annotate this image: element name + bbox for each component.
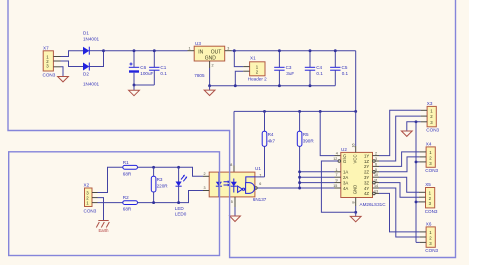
LED LED0 — [175, 167, 187, 216]
svg-text:7805: 7805 — [194, 73, 205, 78]
wire X7 pin3 to ground — [61, 67, 64, 77]
U1 internal photodiode — [231, 179, 237, 193]
svg-text:390R: 390R — [303, 138, 315, 143]
svg-text:Header 2: Header 2 — [248, 77, 267, 82]
wire 1A row — [300, 171, 335, 173]
ground symbol below U2 — [350, 216, 361, 221]
junction 1A — [298, 170, 301, 173]
svg-text:CON3: CON3 — [425, 209, 438, 214]
U1 pin5 stub — [234, 197, 236, 207]
svg-text:6: 6 — [259, 182, 261, 186]
wire gnd to Gbar branch — [321, 161, 355, 212]
wire X4 pin3 to gnd bus — [416, 161, 420, 163]
junction X4 gnd — [415, 160, 418, 163]
wire G enable riser to U2 pin4 — [320, 111, 334, 155]
7805 pin3 stub — [225, 50, 232, 52]
svg-text:3A: 3A — [343, 180, 348, 185]
wire gnd vertical bus — [415, 122, 417, 243]
svg-text:2Y: 2Y — [364, 164, 369, 169]
junction at rail C1 — [153, 49, 156, 52]
IC U2 AM26LS31C body — [341, 147, 386, 207]
junction X5 gnd — [415, 200, 418, 203]
U1 pin2 stub — [203, 175, 209, 177]
wire 4Z to X6 pin1 — [379, 193, 420, 232]
wire R1 to U1 pin2 — [138, 167, 204, 176]
svg-text:1N4001: 1N4001 — [83, 82, 100, 87]
junction X1 gnd — [234, 84, 237, 87]
U1 internal LED — [216, 182, 222, 187]
junction C3 bottom — [278, 84, 281, 87]
wire 3Z to X5 pin2 — [379, 183, 419, 198]
svg-text:8: 8 — [230, 163, 232, 167]
svg-text:220R: 220R — [157, 183, 169, 188]
resistor R1 — [123, 160, 138, 177]
svg-text:U2: U2 — [341, 147, 347, 152]
svg-text:C1: C1 — [160, 65, 166, 70]
node junction D1/D2 — [102, 49, 105, 52]
wire X6 pin3 from gnd bus — [416, 241, 420, 243]
svg-text:11: 11 — [374, 179, 378, 183]
junction C4 bottom — [309, 84, 312, 87]
svg-text:8: 8 — [352, 201, 356, 203]
svg-text:3: 3 — [204, 186, 206, 190]
U2 output stubs with bubbles on Z pins — [373, 156, 380, 195]
svg-text:Earth: Earth — [99, 228, 110, 233]
ground symbol below U1 — [230, 216, 241, 222]
U2 pin4 stub — [335, 155, 341, 157]
svg-text:X3: X3 — [427, 101, 433, 106]
svg-text:OUT: OUT — [211, 49, 222, 55]
svg-text:0.1: 0.1 — [342, 71, 349, 76]
wire X5 pin3 to gnd bus — [416, 201, 419, 203]
U1 internal gate — [246, 183, 255, 194]
wire 3Y to X5 pin1 — [379, 177, 419, 192]
svg-text:6: 6 — [375, 162, 377, 166]
U2 pin 12 bubble — [338, 160, 341, 163]
svg-text:U1: U1 — [255, 166, 261, 171]
svg-text:D1: D1 — [83, 31, 89, 36]
junction C4 top — [309, 49, 312, 52]
capacitor C5 — [330, 51, 348, 86]
wire 2Y to X4 pin1 — [379, 152, 420, 167]
wire 4Y to X6 pin2 — [379, 188, 420, 237]
U2 pin16 wire — [355, 111, 357, 146]
svg-text:U3: U3 — [195, 41, 201, 46]
svg-text:0.1: 0.1 — [160, 71, 167, 76]
svg-text:C4: C4 — [316, 65, 322, 70]
svg-text:68R: 68R — [123, 171, 132, 176]
svg-text:X1: X1 — [250, 55, 256, 60]
svg-text:C5: C5 — [342, 65, 348, 70]
svg-text:1: 1 — [189, 47, 191, 51]
regulator U3 7805 — [189, 41, 230, 78]
wire main rail to 7805 IN — [104, 50, 188, 52]
7805 pin2 wire down — [209, 68, 211, 86]
connector X6 — [420, 221, 439, 253]
junction LED bottom — [177, 201, 180, 204]
svg-text:1A: 1A — [343, 170, 348, 175]
svg-text:16: 16 — [352, 143, 356, 147]
wire C6/C1 ground link — [134, 84, 154, 86]
svg-text:3uF: 3uF — [286, 71, 294, 76]
7805 pin2 stub — [209, 61, 211, 68]
ground symbol below C6 — [129, 90, 140, 95]
svg-text:R4: R4 — [268, 132, 274, 137]
junction C5 top — [334, 49, 337, 52]
U2 input stubs 1A,2A,3A,4A — [335, 171, 341, 173]
connector X5 — [419, 182, 438, 214]
capacitor C3 — [274, 51, 294, 86]
svg-text:7: 7 — [336, 173, 338, 177]
U1 pin3 stub — [203, 190, 209, 192]
svg-text:R5: R5 — [303, 132, 309, 137]
junction X3 gnd — [415, 120, 418, 123]
svg-text:VCC: VCC — [352, 154, 357, 163]
wire VCC drop to distribution node — [355, 51, 357, 112]
wire X2 pin3 to R1 — [98, 167, 123, 192]
junction R3 top — [152, 166, 155, 169]
svg-text:1: 1 — [336, 168, 338, 172]
connector X1 (Header 2) — [243, 55, 267, 81]
svg-text:AM26LS31C: AM26LS31C — [360, 202, 387, 207]
zone border: isolated input section — [9, 152, 220, 256]
resistor R4 — [262, 111, 275, 176]
svg-text:X2: X2 — [84, 183, 90, 188]
wire X3 pin3 gnd branch — [407, 122, 421, 131]
svg-text:X7: X7 — [43, 46, 49, 51]
wire 2Z to X4 pin2 — [379, 157, 420, 172]
U1 pin8 stub — [233, 166, 235, 173]
wire X1 pin1 feed — [234, 51, 243, 67]
svg-text:C6: C6 — [140, 65, 146, 70]
wire X2 pin1 to R2 — [98, 202, 123, 204]
svg-text:D2: D2 — [83, 72, 89, 77]
svg-text:GND: GND — [205, 56, 217, 62]
U2 pin16 stub — [355, 146, 357, 152]
svg-text:CON3: CON3 — [425, 168, 438, 173]
ground symbol near X3 — [401, 131, 412, 136]
connector X4 — [420, 141, 439, 173]
wire U1 pin8 riser — [233, 111, 235, 165]
capacitor C6 (electrolytic 100uF) — [129, 51, 154, 85]
connector X2 — [84, 183, 98, 214]
U1 light arrows — [224, 180, 231, 186]
X7 pin 2 stub — [53, 60, 60, 62]
X7 pin 1 stub — [53, 56, 60, 58]
wire 1Y to X3 pin1 — [379, 110, 421, 155]
junction 2A — [298, 176, 301, 179]
svg-text:4A: 4A — [343, 186, 348, 191]
svg-text:4k7: 4k7 — [268, 138, 276, 143]
X7 pin 3 stub — [53, 66, 60, 68]
svg-text:X6: X6 — [426, 221, 432, 226]
svg-text:3Y: 3Y — [364, 175, 369, 180]
svg-text:15: 15 — [333, 184, 337, 188]
svg-text:3Z: 3Z — [364, 180, 369, 185]
wire X1 pin2 to gnd rail — [235, 71, 243, 86]
wire 7805 OUT rail — [232, 50, 356, 52]
svg-text:IN: IN — [198, 49, 203, 55]
svg-text:68R: 68R — [123, 207, 132, 212]
junction R3 bottom — [152, 201, 155, 204]
svg-text:4: 4 — [336, 152, 338, 156]
wire 2A row — [300, 176, 335, 178]
connector X7 — [43, 46, 56, 78]
junction G riser — [319, 110, 322, 113]
U1 pin7 wire from R4 — [255, 176, 265, 178]
junction LED top — [177, 166, 180, 169]
U2 pin8 GND wire — [355, 206, 357, 212]
earth ground symbol — [96, 221, 109, 228]
svg-text:14: 14 — [374, 184, 378, 188]
svg-text:3: 3 — [375, 157, 377, 161]
svg-text:2: 2 — [212, 64, 214, 68]
resistor R2 — [123, 195, 138, 211]
svg-text:12: 12 — [333, 157, 337, 161]
U1 pin6 output bubble — [255, 187, 257, 189]
svg-text:R2: R2 — [123, 195, 129, 200]
svg-text:3: 3 — [227, 47, 229, 51]
wire 1Z to X3 pin2 — [379, 116, 421, 161]
svg-text:CON3: CON3 — [425, 248, 438, 253]
svg-text:5: 5 — [375, 168, 377, 172]
resistor R3 — [151, 167, 168, 202]
junction at rail C6 — [133, 49, 136, 52]
svg-text:9: 9 — [336, 179, 338, 183]
svg-text:6N137: 6N137 — [253, 197, 267, 202]
junction R5 top — [298, 110, 301, 113]
junction 7805 gnd — [208, 84, 211, 87]
svg-text:13: 13 — [374, 189, 378, 193]
svg-text:X5: X5 — [425, 182, 431, 187]
U1 internal LED line — [218, 172, 220, 197]
optocoupler U1 6N137 body — [209, 166, 267, 202]
stem to ground under 7805 — [209, 86, 211, 90]
U1 pin5 wire to ground — [234, 207, 236, 216]
wire VCC distribution horizontal — [234, 110, 356, 112]
7805 pin1 stub — [188, 50, 195, 52]
svg-text:CON3: CON3 — [426, 128, 439, 133]
wire gnd rail right — [210, 85, 336, 87]
junction R4 top — [263, 110, 266, 113]
svg-text:CON3: CON3 — [43, 73, 56, 78]
U1 internal output link — [253, 187, 256, 189]
stem ground U2 — [355, 212, 357, 216]
U1 internal enable link — [246, 177, 255, 183]
wire 3A row — [300, 182, 335, 184]
wire 4A row from U1 output — [257, 187, 335, 189]
junction 3A — [298, 181, 301, 184]
wire D1 cathode to node — [89, 50, 103, 52]
wire D2 cathode up to node — [89, 51, 103, 67]
svg-text:1Y: 1Y — [364, 153, 369, 158]
diode D2 — [83, 63, 100, 87]
svg-text:X4: X4 — [426, 141, 432, 146]
resistor R5 — [297, 111, 314, 188]
junction 4A / R5 — [298, 187, 301, 190]
svg-text:GND: GND — [352, 185, 357, 195]
svg-text:C3: C3 — [286, 65, 292, 70]
diode D1 — [83, 31, 100, 55]
svg-text:4Y: 4Y — [364, 186, 369, 191]
U1 internal buffer — [238, 186, 245, 192]
svg-text:100uF: 100uF — [140, 71, 153, 76]
svg-text:2: 2 — [375, 152, 377, 156]
U2 pin8 stub — [355, 198, 357, 207]
ground symbol at X7 — [58, 77, 69, 82]
wire X7 pin1 to D1 — [61, 51, 84, 57]
wire X2 pin2 to earth — [98, 198, 104, 221]
svg-text:R3: R3 — [157, 177, 163, 182]
junction VCC node — [354, 110, 357, 113]
ground symbol below 7805 — [204, 90, 215, 95]
wire X7 pin2 to D2 — [61, 61, 84, 67]
svg-text:2A: 2A — [343, 175, 348, 180]
capacitor C4 — [305, 51, 323, 86]
junction C6 ground — [133, 84, 136, 87]
svg-text:2: 2 — [204, 172, 206, 176]
svg-text:7: 7 — [259, 173, 261, 177]
wire stem to ground — [133, 85, 135, 90]
svg-text:1Z: 1Z — [364, 159, 369, 164]
wire R2 to U1 pin3 — [138, 191, 204, 203]
capacitor C1 (0.1) — [149, 51, 167, 85]
junction rail at X1 riser — [233, 49, 236, 52]
svg-text:0.1: 0.1 — [316, 71, 323, 76]
svg-text:5: 5 — [231, 200, 233, 204]
svg-text:LED0: LED0 — [175, 211, 187, 216]
junction U2 gnd — [354, 211, 357, 214]
svg-text:1N4001: 1N4001 — [83, 37, 100, 42]
svg-text:4Z: 4Z — [364, 191, 369, 196]
svg-text:CON3: CON3 — [84, 208, 97, 213]
connector X3 — [421, 101, 440, 133]
svg-text:R1: R1 — [123, 160, 129, 165]
svg-text:10: 10 — [374, 173, 378, 177]
junction C3 top — [278, 49, 281, 52]
svg-text:2Z: 2Z — [364, 170, 369, 175]
